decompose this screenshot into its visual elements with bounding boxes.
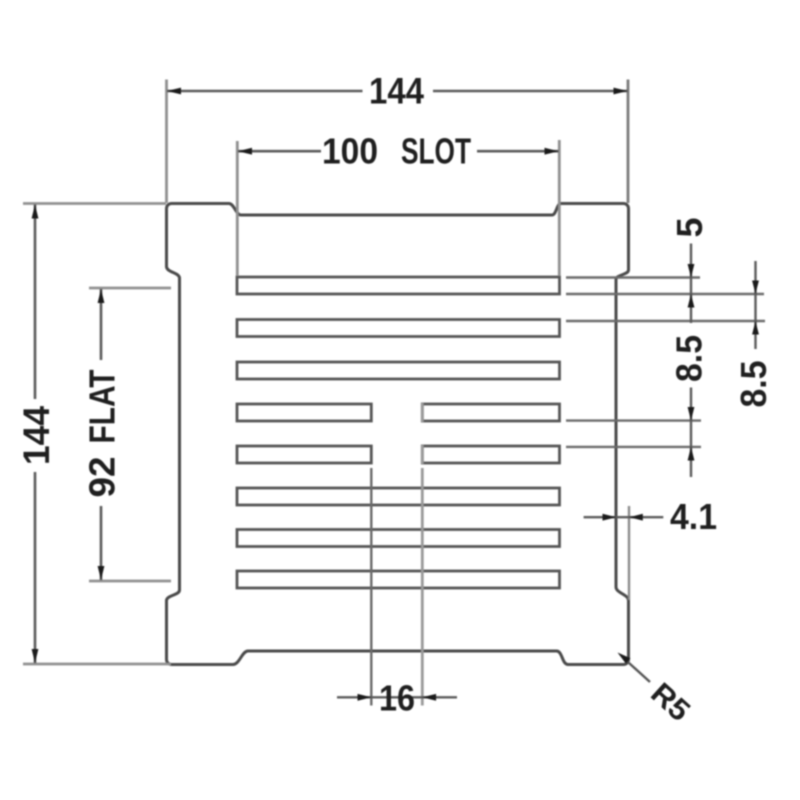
dim 8.5 second: arrowheads bbox=[752, 281, 759, 295]
svg-text:8.5: 8.5 bbox=[669, 335, 710, 382]
dim 92 FLAT: dimension line bbox=[100, 289, 103, 360]
slot row 4 left bbox=[237, 404, 371, 421]
dim 100 SLOT: extension lines bbox=[236, 141, 239, 276]
dim top 144: dimension line bbox=[167, 90, 363, 93]
slot row 5 left bbox=[237, 446, 371, 463]
dim 5: dimension line bbox=[690, 244, 692, 324]
svg-text:16: 16 bbox=[379, 678, 415, 719]
svg-text:FLAT: FLAT bbox=[82, 369, 123, 443]
slot row 1 bbox=[237, 277, 560, 294]
svg-text:SLOT: SLOT bbox=[401, 131, 471, 172]
svg-text:4.1: 4.1 bbox=[670, 496, 717, 537]
slot row 3 bbox=[237, 362, 560, 379]
svg-text:144: 144 bbox=[16, 406, 57, 465]
plate outline bbox=[167, 204, 629, 665]
dim 92 FLAT: extension lines bbox=[89, 287, 171, 290]
dim left 144: extension lines bbox=[23, 202, 166, 205]
dim 5: arrowheads bbox=[688, 264, 695, 278]
slot row 8 bbox=[237, 571, 560, 588]
dim 4.1: arrowheads bbox=[603, 514, 617, 521]
dim 4.1: extension line bbox=[628, 506, 630, 600]
dim 16: dimension line bbox=[337, 696, 457, 698]
slot row 4 right bbox=[422, 404, 559, 421]
svg-text:5: 5 bbox=[669, 217, 710, 237]
slot row 6 bbox=[237, 488, 560, 505]
svg-text:8.5: 8.5 bbox=[733, 361, 774, 408]
dim 100 SLOT: arrowheads bbox=[238, 148, 252, 155]
slot edge extension lines right side bbox=[566, 276, 700, 278]
slot row 5 right bbox=[422, 446, 559, 463]
dim 100 SLOT: dimension line bbox=[238, 150, 321, 153]
slot row 2 bbox=[237, 320, 560, 337]
dim 16: extension line overlap on slot ends bbox=[421, 403, 424, 422]
dim 16: arrowheads bbox=[358, 694, 372, 701]
dim left 144: dimension line bbox=[34, 205, 37, 400]
dim 8.5 first: arrowheads bbox=[688, 407, 695, 421]
dim 92 FLAT: arrowheads bbox=[98, 289, 105, 303]
dim 16: extension lines bbox=[370, 468, 372, 706]
dim top 144: arrowheads bbox=[167, 88, 181, 95]
R5 leader bbox=[629, 663, 650, 682]
dim 4.1: dimension line bbox=[584, 516, 664, 518]
svg-text:100: 100 bbox=[322, 131, 378, 172]
slot row 7 bbox=[237, 530, 560, 547]
svg-text:144: 144 bbox=[369, 71, 424, 112]
dim 8.5 second: dimension line bbox=[754, 261, 756, 349]
svg-text:92: 92 bbox=[82, 457, 123, 498]
dim left 144: arrowheads bbox=[32, 205, 39, 219]
dim 8.5 first: dimension line bbox=[690, 388, 692, 478]
dim top 144: extension lines bbox=[165, 80, 168, 204]
